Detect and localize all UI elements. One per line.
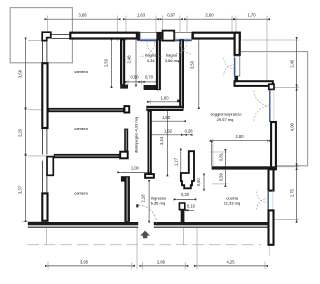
arc bagno2 window right (180, 42, 192, 54)
svg-text:3,66 mq: 3,66 mq (165, 58, 179, 63)
wall E low (269, 169, 274, 190)
wall E jog vertical (234, 76, 238, 81)
extension line below right wall (269, 245, 271, 256)
dim 0,30 (177, 198, 193, 200)
dim 1,92 (151, 134, 184, 136)
ext bottom dims (47, 262, 49, 270)
dim 0,16 (180, 209, 185, 211)
wall disimpegno east (148, 111, 152, 173)
dim 3,37 (25, 157, 27, 219)
svg-text:1,92: 1,92 (164, 129, 173, 134)
wall flue cucina (181, 151, 194, 188)
window E1 frame (234, 56, 240, 76)
wall bagno1 bottom right (144, 85, 161, 90)
wall bottom slab left (28, 222, 138, 225)
wall kitchen stub head (179, 203, 184, 210)
dim 3,50 (198, 41, 200, 106)
dim 2,75 (296, 167, 298, 220)
dim 3,68 (48, 18, 118, 20)
arc window E1 top (224, 58, 235, 69)
dim 2,20 (25, 111, 27, 153)
window L1 left wall (42, 41, 44, 62)
svg-text:0,60: 0,60 (196, 178, 201, 187)
dim 1,60 (150, 101, 179, 103)
wall bagno1 door foot (120, 85, 128, 89)
dim 2,80 cucina (213, 140, 268, 142)
entrance door leaf (136, 204, 138, 207)
arc bagno1 window left (140, 42, 155, 57)
wall bagno divider top piece (156, 32, 161, 40)
svg-text:1,63: 1,63 (137, 13, 146, 18)
window bagno2 glass (175, 40, 192, 42)
svg-text:11,33 mq: 11,33 mq (224, 200, 240, 205)
dim 1,00 (120, 171, 148, 173)
window bagno2 frame (175, 32, 192, 39)
wall top soggiorno (193, 33, 240, 39)
svg-text:1,00: 1,00 (131, 166, 140, 171)
dim 2,60 (187, 18, 232, 20)
svg-text:3,50: 3,50 (189, 60, 194, 69)
property dashed line bottom (28, 244, 262, 246)
dim 1,80 (153, 120, 184, 122)
ext small dims (210, 151, 228, 153)
window bagno1 frame (140, 32, 162, 39)
dim 3,44 (166, 111, 168, 173)
svg-text:0,28: 0,28 (185, 129, 194, 134)
dim 2,48 bagno1 (135, 40, 137, 83)
dim 0,80 (128, 81, 142, 83)
svg-text:3,44: 3,44 (159, 136, 164, 145)
wall E jog horizontal (235, 81, 273, 86)
arc window E3 top (256, 191, 268, 203)
svg-text:3,56: 3,56 (18, 69, 23, 78)
svg-text:2,50: 2,50 (103, 58, 108, 67)
window bagno1 glass (140, 40, 162, 42)
svg-text:0,97: 0,97 (167, 13, 176, 18)
window top (camera balcony door) (52, 33, 70, 35)
wall soggiorno nook horizontal (146, 106, 183, 111)
wall divider camera1/camera2 (49, 108, 124, 112)
north arrow (140, 231, 150, 239)
wall kitchen stub stem (181, 210, 185, 222)
dim 0,28 (184, 134, 189, 136)
arc window E2 bottom (254, 106, 270, 122)
svg-text:4,08: 4,08 (290, 122, 295, 131)
window L3 left wall (42, 176, 44, 192)
wall E mid (271, 122, 276, 169)
wall left pier3 (42, 193, 47, 220)
arc bagno2 window left (175, 42, 187, 54)
svg-text:3,95: 3,95 (80, 259, 89, 264)
wall camera2 east (124, 129, 128, 151)
dim 0,70 (142, 81, 157, 83)
window L2 left wall (42, 129, 44, 155)
dim 2,50 camera1 (111, 42, 113, 85)
wall cucina north (212, 166, 277, 169)
arc bagno1 window right (147, 42, 162, 57)
svg-text:0,81: 0,81 (219, 152, 224, 161)
wall soggiorno west upper (179, 40, 184, 109)
svg-text:1,80: 1,80 (162, 115, 171, 120)
wall E jog end step (269, 84, 274, 89)
dim 2,80 bottom (143, 265, 186, 267)
wall divider2 end cap (120, 152, 128, 159)
svg-text:6,36 mq: 6,36 mq (151, 200, 165, 205)
svg-text:4,34: 4,34 (147, 58, 156, 63)
svg-text:4,25: 4,25 (227, 259, 236, 264)
window E3 glass (267, 191, 269, 211)
svg-text:2,80: 2,80 (157, 259, 166, 264)
wall soggiorno west foot stub (177, 100, 179, 103)
svg-text:2,75: 2,75 (290, 188, 295, 197)
svg-text:2,20: 2,20 (18, 128, 23, 137)
svg-text:camera: camera (74, 69, 88, 74)
arc window E3 bottom (256, 198, 268, 210)
svg-text:3,37: 3,37 (18, 185, 23, 194)
dim 0,81 (224, 152, 226, 166)
dim 4,08 (296, 88, 298, 167)
ext left dims (28, 40, 42, 42)
dim 2,40 (296, 40, 298, 88)
svg-text:2,48: 2,48 (127, 55, 132, 64)
svg-text:2,40: 2,40 (290, 59, 295, 68)
svg-text:camera: camera (74, 191, 88, 196)
wall stub left of bagno window (137, 32, 140, 41)
arc entrance door (138, 205, 156, 223)
wall left pier1 (42, 63, 47, 128)
svg-text:2,18: 2,18 (141, 194, 146, 203)
wall NE corner vertical (235, 33, 240, 55)
wall divider1 end cap (124, 106, 129, 112)
dim 4,25 (197, 265, 265, 267)
svg-text:29,57 mq: 29,57 mq (217, 117, 234, 122)
wall camera1/bagno1 (120, 40, 125, 85)
svg-text:0,80: 0,80 (131, 74, 140, 79)
wall E bottom (269, 210, 274, 244)
svg-text:0,30: 0,30 (181, 192, 190, 197)
wall left pier2 small (47, 157, 53, 176)
dim 0,59 (224, 170, 226, 184)
wall bottom lower line right (154, 226, 268, 228)
arc window E1 bottom (224, 65, 235, 76)
wall top-left corner block (42, 32, 51, 40)
wall bagno1/bagno2 divider (156, 40, 161, 91)
dim 1,70 (236, 18, 267, 20)
dim 1,27 (180, 152, 182, 173)
dim 2,18 (148, 183, 150, 219)
dim 0,60 (203, 177, 205, 188)
svg-text:1,27: 1,27 (174, 157, 179, 166)
ext top dims (47, 16, 49, 32)
dim 0,97 (163, 18, 181, 20)
svg-text:disimpegno 4,33 mq: disimpegno 4,33 mq (134, 117, 139, 153)
wall top camera/bagno (70, 33, 137, 39)
wall bottom lower line left (28, 226, 138, 228)
svg-text:1,70: 1,70 (248, 13, 257, 18)
arc window E2 top (254, 90, 270, 106)
window E2 glass (269, 90, 271, 122)
svg-text:3,68: 3,68 (79, 13, 88, 18)
wall bottom slab right (154, 222, 268, 225)
dim 3,95 (48, 265, 132, 267)
wall camera3 east (121, 176, 125, 181)
wall divider camera2/camera3 (54, 154, 120, 158)
ext right dims (241, 39, 299, 41)
svg-text:camera: camera (74, 126, 88, 131)
wall block between bagni windows (163, 31, 175, 41)
svg-text:0,59: 0,59 (219, 173, 224, 182)
svg-text:0,16: 0,16 (187, 204, 196, 209)
svg-text:1,60: 1,60 (161, 96, 170, 101)
svg-text:2,60: 2,60 (206, 13, 215, 18)
dim 1,63 (126, 18, 156, 20)
window E1 glass (234, 58, 236, 76)
terrace E outline (241, 52, 308, 166)
dim 3,56 (25, 41, 27, 107)
svg-text:0,70: 0,70 (145, 74, 154, 79)
dim marker line cucina door (211, 144, 213, 166)
wall disimpegno T cap (145, 174, 154, 178)
balcony NW outline (10, 8, 72, 63)
svg-text:2,80: 2,80 (236, 134, 245, 139)
